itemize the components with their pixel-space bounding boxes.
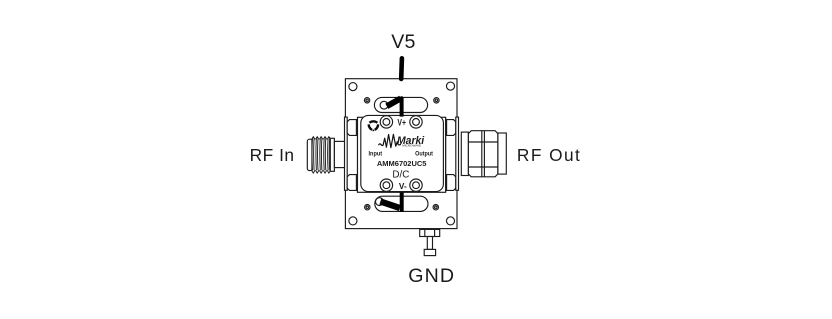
SMA RF In barrel end ring (330, 138, 334, 171)
SMA RF In threaded barrel (312, 137, 331, 173)
V+ capacitor slot pad (374, 97, 427, 112)
GND pin header block (420, 229, 440, 236)
mounting hole top-right (446, 82, 454, 90)
SMA RF Out lower tab (447, 175, 456, 191)
svg-text:V-: V- (399, 181, 407, 191)
via hole top-right (434, 98, 439, 103)
svg-text:RF In: RF In (250, 145, 295, 165)
GND pin stem (427, 237, 432, 250)
svg-text:AMM6702UC5: AMM6702UC5 (377, 159, 427, 168)
PCB board outline (345, 79, 457, 229)
svg-text:V+: V+ (397, 118, 406, 128)
SMA RF In lower tab (347, 175, 356, 191)
wire V5 solder jumper (387, 96, 404, 116)
Marki emblem icon (369, 121, 379, 131)
wire V5 supply upper segment (399, 58, 404, 79)
SMA RF In neck (334, 141, 344, 167)
mounting hole bottom-right (446, 217, 454, 225)
svg-text:GND: GND (408, 265, 455, 287)
SMA RF In barrel end cap (307, 139, 312, 170)
amplifier module U1 body (361, 115, 444, 191)
wire V- solder jumper (380, 192, 401, 212)
SMA RF In body line (357, 117, 359, 192)
SMA RF Out flange plate (456, 117, 459, 190)
svg-text:D/C: D/C (392, 170, 409, 181)
svg-text:RF Out: RF Out (517, 145, 581, 165)
SMA RF In flange plate (345, 117, 348, 190)
screw bottom-left (380, 179, 392, 191)
mounting hole bottom-left (349, 217, 357, 225)
SMA RF Out upper tab (447, 120, 456, 136)
Marki logo waveform (379, 134, 402, 147)
SMA RF In upper tab (347, 120, 356, 136)
screw top-left (380, 116, 392, 128)
via hole bottom-left (365, 205, 370, 210)
via hole top-left (364, 98, 369, 103)
via hole bottom-right (433, 205, 438, 210)
V+ feed via (380, 101, 388, 109)
svg-text:Input: Input (369, 151, 383, 158)
SMA RF Out washer (461, 132, 468, 175)
SMA RF Out hex nut (468, 131, 498, 177)
screw top-right (410, 116, 422, 128)
screw bottom-right (410, 179, 422, 191)
svg-text:V5: V5 (391, 31, 415, 53)
svg-text:MICROWAVE: MICROWAVE (402, 143, 421, 147)
SMA RF Out tip (498, 133, 506, 174)
amplifier carrier plate (358, 117, 446, 192)
svg-text:Output: Output (415, 151, 433, 158)
mounting hole top-left (349, 83, 357, 91)
V- capacitor slot pad (375, 196, 428, 211)
SMA RF Out body line (445, 117, 447, 192)
GND pin cap (424, 249, 435, 255)
V- feed via (376, 198, 384, 206)
